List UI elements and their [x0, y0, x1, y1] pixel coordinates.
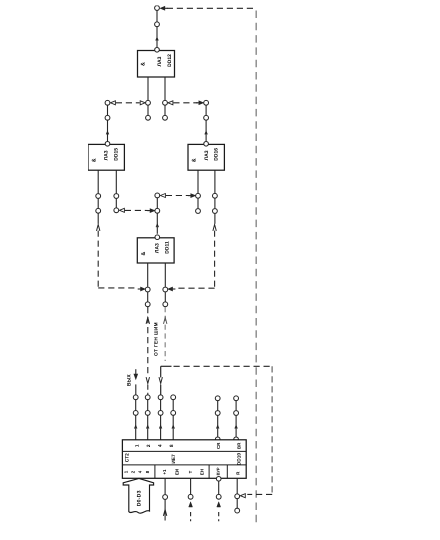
connector circle DD11 in2 upper — [163, 287, 168, 292]
svg-text:DD12: DD12 — [167, 54, 173, 67]
connector circle DD12 in1 upper — [146, 100, 151, 105]
svg-text:&: & — [92, 158, 98, 162]
arrow into DD11 out lower circle — [150, 209, 154, 212]
wire DD11 output chain — [156, 198, 158, 208]
wire DD12 output up — [156, 27, 158, 48]
dashed jumper DD11out-DD16in1 — [166, 195, 190, 197]
connector circle DD16 in2 lower — [213, 209, 218, 214]
connector circle DD16 out upper — [204, 100, 209, 105]
inversion bubble DD16 output — [204, 142, 209, 147]
connector chain counter output Q8 — [171, 395, 176, 400]
wire DD15 input 1 — [97, 170, 99, 193]
long gray dashed vertical — [255, 11, 257, 528]
arrow into DD16 out circle — [199, 101, 203, 104]
connector circle DD11 in1 upper — [145, 287, 150, 292]
dashed jumper DD11.in1 down to counter Q2 — [147, 307, 149, 376]
pin T chain — [190, 478, 192, 494]
connector chain counter output BR — [234, 396, 239, 401]
connector circle DD16 in1 lower — [196, 209, 201, 214]
dashed horizontal jumper to right — [174, 365, 273, 367]
up arrow on left jumper — [97, 225, 100, 231]
svg-text:&: & — [192, 158, 198, 162]
svg-text:ЛА3: ЛА3 — [204, 150, 210, 160]
chip divider line upper — [122, 450, 246, 452]
dashed jumper DD12in2-DD16out — [173, 102, 197, 104]
svg-text:DD15: DD15 — [114, 148, 120, 161]
wire DD11 input 1 — [147, 263, 149, 287]
filled up arrow on ВУР wire — [217, 502, 221, 507]
connector circle R upper — [235, 494, 240, 499]
wire ВЫХ stub to Q1 connector — [135, 384, 137, 394]
up arrow on +1 wire — [163, 510, 166, 516]
svg-text:ОТ ГЕН ШИМ: ОТ ГЕН ШИМ — [154, 322, 160, 356]
direction tick on DD16 output — [205, 131, 208, 134]
connector circle DD12 out lower — [155, 22, 160, 27]
svg-text:&: & — [140, 62, 146, 66]
inversion bubble CR — [215, 437, 220, 442]
connector circle DD11 out lower — [155, 208, 160, 213]
dashed vertical jumper down right side — [271, 366, 273, 494]
svg-text:D0-D3: D0-D3 — [137, 490, 143, 506]
chip cell divider 1 — [154, 465, 156, 478]
inversion bubble DD12 output — [155, 48, 160, 53]
connector chain counter output Q2 — [145, 395, 150, 400]
dashed jumper top horizontal — [167, 7, 256, 9]
connector circle DD12 in1 lower — [146, 115, 151, 120]
connector circle DD15 in1 lower — [96, 208, 101, 213]
dashed jumper DD15out-DD12in1 — [116, 102, 140, 104]
connector circle R lower — [235, 508, 240, 513]
connector circle DD12 in2 upper — [163, 100, 168, 105]
op-gate DD16 box — [188, 144, 224, 170]
dashed horizontal into DD11 in2 — [176, 287, 215, 289]
svg-text:ЛА3: ЛА3 — [104, 150, 110, 160]
dashed stub below ВУР — [218, 512, 220, 521]
op-gate DD12 box — [138, 51, 175, 78]
pin R chain — [236, 478, 238, 493]
dashed stub below T — [190, 512, 192, 521]
svg-text:1: 1 — [134, 444, 140, 447]
jumper arrow into DD12 in2 circle — [168, 101, 173, 105]
connector circle DD15 in2 upper — [114, 194, 119, 199]
connector chain counter output CR — [215, 396, 220, 401]
wire DD12 input 2 — [164, 77, 166, 100]
inversion bubble DD11 output — [155, 235, 160, 240]
up arrow on gray stub — [164, 318, 167, 324]
svg-text:ИЕ7: ИЕ7 — [171, 454, 177, 464]
connector circle DD15 in1 upper — [96, 194, 101, 199]
arrow into DD12 out circle — [161, 7, 165, 10]
wire DD15 input 2 — [115, 170, 117, 193]
connector chain counter output Q1 — [133, 395, 138, 400]
inversion bubble ВУР — [216, 477, 221, 482]
svg-text:+1: +1 — [162, 469, 167, 475]
inversion bubble BR — [234, 437, 239, 442]
jumper arrow into DD15 out circle — [110, 101, 115, 105]
svg-text:CT2: CT2 — [125, 453, 131, 462]
svg-text:ЛА3: ЛА3 — [155, 243, 161, 253]
jumper Q4 to R input: corner — [161, 365, 172, 367]
down arrow on Q2 jumper — [146, 377, 149, 383]
svg-text:ЛА3: ЛА3 — [157, 56, 163, 66]
connector circle DD11 in2 lower — [163, 302, 168, 307]
counter U DD10 (СТ2 ИЕ7) box — [122, 440, 246, 479]
svg-text:CR: CR — [216, 442, 221, 449]
jumper arrow into DD11 out circle — [160, 194, 165, 198]
up arrow on right jumper — [213, 225, 216, 231]
wire DD16 input 1 — [197, 170, 199, 193]
svg-text:Т: Т — [188, 470, 193, 473]
output arrow ВЫХ — [135, 369, 137, 374]
gray dashed stub below DD11.in2 — [164, 307, 166, 361]
connector circle DD16 in2 upper — [213, 193, 218, 198]
pin +1 chain — [164, 478, 166, 494]
up arrow on Q2 jumper — [146, 318, 149, 324]
svg-text:DD16: DD16 — [214, 148, 220, 161]
direction tick on DD11 output — [156, 224, 159, 227]
arrow into DD16 in1 circle — [191, 194, 195, 197]
wire DD15 output chain — [107, 105, 109, 115]
svg-text:ЕИ: ЕИ — [174, 469, 179, 475]
down arrow on Q4 stub — [159, 377, 162, 383]
svg-text:DD10: DD10 — [237, 453, 243, 466]
wire DD16 output chain — [205, 105, 207, 115]
wire DD11 input 2 — [164, 263, 166, 287]
svg-text:4: 4 — [158, 444, 164, 447]
wire DD16 input 2 — [214, 170, 216, 193]
svg-text:ВУР: ВУР — [216, 467, 221, 475]
jumper arrow into DD15 in2 circle — [119, 208, 124, 212]
chip cell divider 3 — [226, 465, 228, 478]
op-gate DD15 box — [88, 144, 124, 170]
svg-text:BR: BR — [236, 442, 241, 449]
connector circle DD16 in1 upper — [196, 193, 201, 198]
filled up arrow on T wire — [189, 502, 193, 507]
svg-text:ВЫХ: ВЫХ — [127, 374, 133, 387]
connector circle DD12 out upper — [155, 6, 160, 11]
connector circle DD15 out lower — [105, 115, 110, 120]
connector circle DD15 out upper — [105, 100, 110, 105]
svg-text:2: 2 — [146, 444, 152, 447]
dashed horizontal into DD11 in1 — [98, 287, 137, 289]
connector circle DD16 out lower — [204, 115, 209, 120]
direction tick on DD15 output — [106, 131, 109, 134]
jumper arrow into DD12 in1 circle — [140, 101, 145, 105]
svg-text:&: & — [141, 252, 147, 256]
connector circle DD12 in2 lower — [163, 115, 168, 120]
wire between DD12 out connector circles — [156, 8, 158, 22]
dashed jumper DD15in2-DD11out — [125, 209, 149, 211]
inversion bubble DD15 output — [105, 142, 110, 147]
wire from corner down to Q4 connector — [160, 366, 162, 377]
svg-text:DD11: DD11 — [165, 241, 171, 254]
chip divider line lower — [122, 464, 246, 466]
op-gate DD11 box — [137, 238, 174, 263]
connector chain counter output Q4 — [158, 395, 163, 400]
chip cell divider 2 — [208, 465, 210, 478]
arrow into R connector circle — [240, 494, 245, 498]
connector circle DD11 in1 lower — [145, 302, 150, 307]
bus arrow D0-D3 into data inputs — [123, 478, 153, 513]
dashed horizontal jumper into R — [247, 493, 272, 495]
wire DD12 input 1 — [147, 77, 149, 100]
svg-text:8: 8 — [169, 444, 175, 447]
arrow into DD11 in2 circle — [168, 287, 172, 290]
connector circle DD15 in2 lower — [114, 208, 119, 213]
arrow into DD11 in1 circle — [141, 287, 145, 290]
svg-text:ЕН: ЕН — [200, 469, 205, 475]
direction tick on DD12 output — [156, 38, 159, 41]
connector circle DD11 out upper — [155, 193, 160, 198]
